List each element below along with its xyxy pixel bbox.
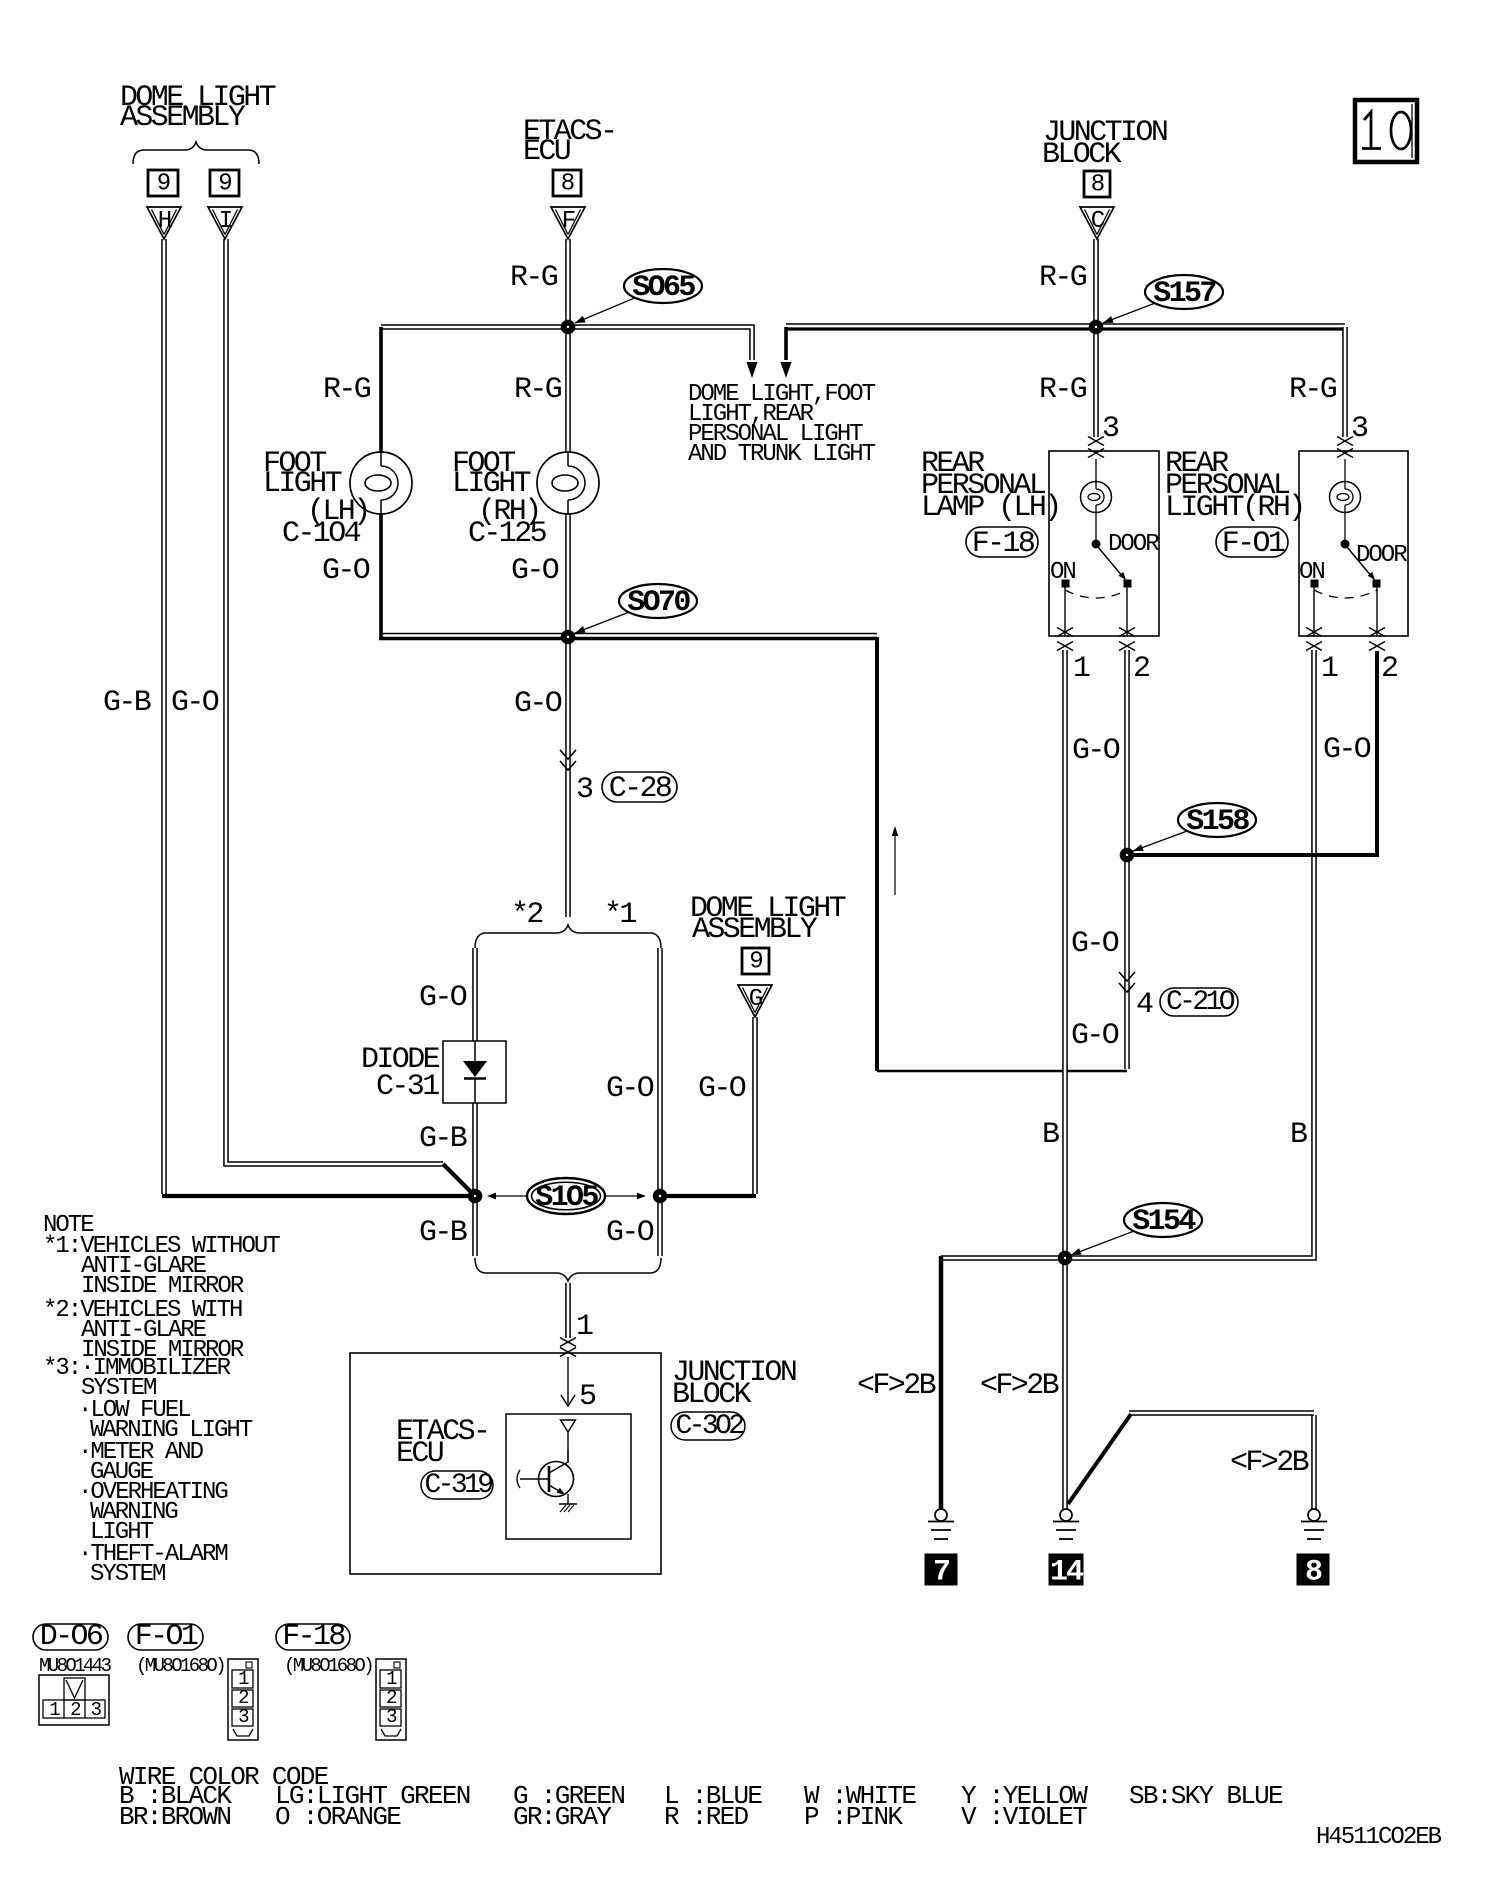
wire: rear lamp LH pin2 G-O wire to S158 and C-210 <box>1124 650 1130 1069</box>
wire: rear lamp LH pin1 B wire to S154 <box>1062 650 1068 1256</box>
svg-text:B: B <box>1042 1118 1059 1152</box>
wire: R-G down to rear personal light RH pin 3 <box>1342 327 1348 437</box>
switch throw arc LH (dashed) <box>1065 590 1127 598</box>
svg-text:BLOCK: BLOCK <box>1042 138 1122 172</box>
wire: G-O bottom run to rear lamp pin 2 wire <box>877 1070 1127 1072</box>
svg-text:G-O: G-O <box>1323 733 1371 767</box>
wire: S105 right branch to dome light G <box>660 1194 756 1198</box>
splice S105 label with arrows <box>527 1178 605 1214</box>
svg-text:G-O: G-O <box>322 554 370 588</box>
wire: pin 5 feed inside junction block <box>567 1357 569 1404</box>
svg-text:4: 4 <box>1136 988 1153 1022</box>
svg-text:S154: S154 <box>1132 1205 1196 1239</box>
svg-text:SB:SKY BLUE: SB:SKY BLUE <box>1129 1781 1283 1811</box>
switch contacts RH <box>1311 580 1318 587</box>
svg-text:D-O6: D-O6 <box>40 1620 103 1654</box>
wire: R-G branch to foot light LH (bold) <box>379 327 383 452</box>
svg-text:14: 14 <box>1050 1556 1084 1590</box>
splice S065 label <box>624 269 702 303</box>
svg-text:R-G: R-G <box>1039 261 1087 295</box>
ground symbol 8 <box>1308 1509 1320 1521</box>
junction block box (C-302) <box>350 1353 661 1574</box>
wire: S105 *2 branch (diode side) <box>472 948 478 1041</box>
female connector symbol inside C-319 <box>561 1420 576 1432</box>
svg-text:O :ORANGE: O :ORANGE <box>275 1802 401 1832</box>
connector drawing F-18 <box>376 1659 406 1740</box>
ground number box 14 <box>1049 1554 1083 1585</box>
junction dot S158 <box>1120 848 1134 862</box>
switch throw arc RH (dashed) <box>1314 590 1377 598</box>
svg-text:G-O: G-O <box>606 1072 654 1106</box>
svg-text:F: F <box>562 208 575 235</box>
svg-text:G-B: G-B <box>419 1122 467 1156</box>
svg-text:G-O: G-O <box>171 686 219 720</box>
brace merging *2 and *1 branches <box>475 1258 661 1281</box>
wire: R-G branch to foot light RH <box>565 327 571 452</box>
ground number box 8 <box>1297 1554 1329 1585</box>
wire: bold G-B from H to S105 <box>162 1194 475 1198</box>
switch blade RH <box>1347 547 1372 577</box>
svg-text:F-18: F-18 <box>972 527 1035 561</box>
wire: G-O from S070 down to C-28 <box>565 637 571 917</box>
wire: R-G horizontal from S157 (thin+bold) <box>786 323 1345 325</box>
svg-text:(MU8O168O): (MU8O168O) <box>284 1655 372 1677</box>
svg-text:G-O: G-O <box>514 687 562 721</box>
svg-text:8: 8 <box>1305 1556 1322 1590</box>
svg-text:2: 2 <box>1381 652 1397 686</box>
wire: R-G horizontal S065 to down-arrow <box>381 327 752 360</box>
svg-text:1: 1 <box>576 1310 593 1344</box>
switch: rear lamp LH common dot <box>1092 540 1100 548</box>
connector capsule D-06 <box>33 1624 108 1650</box>
svg-text:1: 1 <box>1073 652 1090 686</box>
brace over dome light assembly connectors <box>133 142 259 164</box>
svg-text:C: C <box>1091 208 1105 235</box>
arrow: R-G continues to other circuits (left) <box>747 362 758 378</box>
pin marks bottom RH light <box>1306 628 1322 637</box>
svg-text:R-G: R-G <box>1039 373 1087 407</box>
svg-text:2: 2 <box>1133 652 1149 686</box>
connector box 9 (dome light G) <box>742 948 769 974</box>
inline connector C-210 chevrons <box>1119 972 1135 981</box>
svg-text:SO70: SO70 <box>627 586 690 620</box>
component box: rear personal lamp LH <box>1049 451 1159 636</box>
svg-text:C-125: C-125 <box>468 517 547 551</box>
svg-text:ASSEMBLY: ASSEMBLY <box>120 101 246 135</box>
connector triangle F <box>551 207 585 239</box>
svg-text:I: I <box>219 208 232 235</box>
svg-text:F-18: F-18 <box>282 1620 345 1654</box>
connector capsule F-01 (bottom) <box>128 1624 203 1650</box>
svg-text:BLOCK: BLOCK <box>672 1378 752 1412</box>
switch: rear light RH common dot <box>1341 540 1349 548</box>
wire: rear lamp RH pin1 B wire to S154 <box>1067 650 1314 1258</box>
svg-text:INSIDE MIRROR: INSIDE MIRROR <box>81 1273 244 1300</box>
connector triangle I <box>208 207 242 239</box>
connector box 8 (junction block) <box>1084 171 1110 197</box>
ground symbol 14 <box>1060 1509 1072 1521</box>
wire: S154 left run to ground 7 drop <box>941 1255 1063 1261</box>
svg-text:9: 9 <box>749 949 762 976</box>
junction dot S157 <box>1089 320 1103 334</box>
bulb: rear personal lamp LH <box>1095 459 1097 482</box>
svg-text:C-1O4: C-1O4 <box>282 517 361 551</box>
svg-text:F-O1: F-O1 <box>1222 527 1285 561</box>
svg-text:R-G: R-G <box>510 261 558 295</box>
svg-text:*1: *1 <box>604 898 636 932</box>
svg-text:9: 9 <box>218 171 231 198</box>
connector capsule F-18 <box>966 527 1038 557</box>
junction dot S105 right <box>653 1189 667 1203</box>
connector box 8 (ETACS-ECU) <box>553 170 581 196</box>
svg-text:MU8O1443: MU8O1443 <box>39 1655 112 1677</box>
svg-text:ON: ON <box>1050 559 1075 586</box>
switch contact leads LH <box>1064 587 1066 636</box>
svg-text:BR:BROWN: BR:BROWN <box>119 1802 230 1832</box>
wire: junction block C R-G down to S157 <box>1093 239 1099 327</box>
svg-text:G-O: G-O <box>511 554 559 588</box>
ETACS-ECU inner box (C-319) <box>506 1414 631 1539</box>
connector drawing F-01 <box>228 1659 258 1740</box>
wire: dome light G G-O drop <box>752 1017 758 1194</box>
wire: C-302 pin 1 feed below brace <box>565 1283 571 1338</box>
svg-text:C-3O2: C-3O2 <box>675 1411 743 1442</box>
svg-text:R-G: R-G <box>323 373 371 407</box>
svg-text:G-B: G-B <box>103 686 151 720</box>
svg-text:1: 1 <box>1321 652 1338 686</box>
svg-text:GR:GRAY: GR:GRAY <box>513 1802 612 1832</box>
connector triangle C <box>1080 207 1114 239</box>
connector box 9 (dome light assembly I) <box>210 170 239 196</box>
junction dot S154 <box>1058 1251 1072 1265</box>
base lead with curl <box>520 1478 549 1480</box>
connector box 9 (dome light assembly H) <box>148 170 178 196</box>
component box: rear personal light RH <box>1299 451 1408 636</box>
svg-text:G-O: G-O <box>1072 734 1120 768</box>
svg-text:3: 3 <box>1351 412 1368 446</box>
connector drawing D-06 <box>39 1675 109 1725</box>
svg-text:<F>2B: <F>2B <box>1230 1446 1309 1480</box>
svg-text:G-O: G-O <box>1071 927 1119 961</box>
svg-text:R-G: R-G <box>1289 373 1337 407</box>
pin 3 marks rear light RH <box>1337 437 1353 446</box>
connector marks at C-302 entry <box>560 1338 576 1347</box>
pin 3 marks rear lamp LH <box>1088 437 1104 446</box>
svg-text:R :RED: R :RED <box>664 1802 749 1832</box>
diode C-31 box <box>443 1041 506 1103</box>
wire: foot light LH to S070 (bold) <box>379 513 383 637</box>
wire: G-O bold horizontal S070 run <box>381 633 877 635</box>
svg-text:G-O: G-O <box>1071 1019 1119 1053</box>
connector capsule F-18 (bottom) <box>276 1624 350 1650</box>
wire: rear light RH pin2 bold G-O to S158 <box>1128 651 1377 855</box>
junction dot S065 <box>561 320 575 334</box>
svg-text:ASSEMBLY: ASSEMBLY <box>692 913 818 947</box>
inline connector C-28 chevrons <box>560 750 576 759</box>
bulb: rear personal light RH <box>1344 459 1346 482</box>
wire: G-O bold down right side to rear lamp feed <box>875 637 879 1071</box>
svg-text:3: 3 <box>576 773 593 807</box>
svg-text:AND TRUNK LIGHT: AND TRUNK LIGHT <box>688 441 876 468</box>
svg-text:G: G <box>749 986 762 1013</box>
switch contact leads RH <box>1313 587 1315 636</box>
svg-text:3: 3 <box>1102 412 1119 446</box>
wire: R-G bold stub down-arrow at left of S157 run <box>784 327 788 360</box>
svg-text:C-21O: C-21O <box>1166 987 1235 1018</box>
splice S070 label <box>619 584 697 618</box>
splice S157 label <box>1145 275 1223 309</box>
wire: R-G down to rear personal lamp LH pin 3 <box>1093 327 1099 437</box>
transistor in ETACS-ECU <box>539 1462 574 1497</box>
svg-text:*2: *2 <box>511 898 542 932</box>
wire: dome light assembly I branch (G-O) <box>226 239 443 1164</box>
brace splitting wire into *2 and *1 branches <box>475 925 661 948</box>
svg-text:B: B <box>1290 1118 1307 1152</box>
svg-text:ON: ON <box>1299 559 1324 586</box>
svg-text:H4511CO2EB: H4511CO2EB <box>1316 1824 1442 1851</box>
splice S154 label <box>1124 1203 1202 1237</box>
svg-text:ECU: ECU <box>523 135 570 169</box>
wire: ETACS F R-G down to S065 <box>565 239 571 327</box>
page number box 10 <box>1355 100 1417 162</box>
wire: bold diagonal ground link 14 to 8 <box>1068 1414 1131 1504</box>
svg-text:C-31: C-31 <box>376 1070 439 1104</box>
svg-text:8: 8 <box>1091 172 1104 199</box>
svg-text:DOOR: DOOR <box>1356 542 1407 569</box>
svg-text:S158: S158 <box>1186 805 1249 839</box>
svg-text:DOOR: DOOR <box>1108 531 1159 558</box>
svg-text:SYSTEM: SYSTEM <box>90 1561 165 1588</box>
svg-text:V :VIOLET: V :VIOLET <box>961 1802 1087 1832</box>
svg-text:G-O: G-O <box>606 1216 654 1250</box>
svg-text:(MU8O168O): (MU8O168O) <box>136 1655 224 1677</box>
junction dot S105 left <box>468 1189 482 1203</box>
svg-text:H: H <box>158 208 171 235</box>
svg-text:ECU: ECU <box>396 1437 443 1471</box>
wire: ground 8 horizontal run <box>1129 1410 1314 1416</box>
svg-text:8: 8 <box>561 171 574 198</box>
svg-text:S1O5: S1O5 <box>535 1181 598 1215</box>
wire: ground 8 riser <box>1311 1415 1317 1509</box>
wire: S105 *1 branch <box>657 948 663 1256</box>
svg-text:9: 9 <box>157 171 170 198</box>
connector triangle G <box>738 985 772 1017</box>
wire: diagonal G-O into splice S105 <box>443 1164 476 1197</box>
wire: foot light RH to S070 <box>565 513 571 637</box>
ground number box 7 <box>925 1554 957 1585</box>
connector capsule F-01 <box>1216 527 1288 557</box>
svg-text:LAMP (LH): LAMP (LH) <box>921 491 1060 525</box>
svg-text:<F>2B: <F>2B <box>980 1369 1059 1403</box>
lamp: foot light LH bulb <box>350 452 412 514</box>
ground symbol 7 <box>935 1509 947 1521</box>
svg-text:SO65: SO65 <box>632 271 695 305</box>
wire: bold B wire down to ground 7 <box>939 1256 944 1509</box>
svg-text:G-B: G-B <box>419 1216 467 1250</box>
lamp: foot light RH bulb <box>537 452 599 514</box>
wire: B wire S154 down to ground 14 <box>1062 1258 1068 1509</box>
svg-text:C-319: C-319 <box>424 1470 492 1501</box>
svg-text:G-O: G-O <box>419 981 467 1015</box>
pin marks bottom LH lamp <box>1057 628 1073 637</box>
splice S158 label <box>1178 803 1256 837</box>
wire: dome light assembly H branch (G-B) <box>161 239 167 1194</box>
connector triangle H <box>147 207 181 239</box>
switch contacts LH <box>1062 580 1069 587</box>
annotation arrow up beside G-O feed <box>894 832 896 895</box>
svg-text:7: 7 <box>933 1556 949 1590</box>
junction dot S070 <box>561 630 575 644</box>
svg-text:5: 5 <box>579 1380 596 1414</box>
svg-text:G-O: G-O <box>698 1072 746 1106</box>
svg-text:S157: S157 <box>1153 277 1215 311</box>
svg-text:R-G: R-G <box>514 373 562 407</box>
mini ground in transistor circuit <box>559 1503 577 1505</box>
svg-text:<F>2B: <F>2B <box>857 1369 936 1403</box>
svg-text:LIGHT(RH): LIGHT(RH) <box>1165 491 1304 525</box>
svg-text:F-O1: F-O1 <box>135 1620 198 1654</box>
svg-text:P :PINK: P :PINK <box>804 1802 903 1832</box>
switch blade LH <box>1098 547 1123 577</box>
svg-text:C-28: C-28 <box>609 772 672 806</box>
